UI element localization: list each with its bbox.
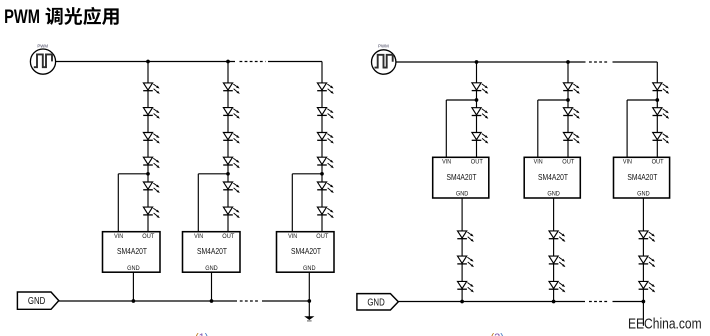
svg-text:SM4A20T: SM4A20T [538,173,568,182]
junction bus-col2 (right) [566,60,570,64]
svg-text:VIN: VIN [623,160,632,166]
svg-text:VIN: VIN [442,160,451,166]
LED D9 (left col2) [223,133,240,144]
wire GND pin col1 (left) [132,272,134,301]
wire PWM bus dashed (continuation) [240,61,266,63]
svg-text:GND: GND [127,266,140,272]
LED D8 (left col2) [223,108,240,119]
svg-text:PWM: PWM [37,43,48,49]
IC U5 SM4A20T [524,157,580,198]
IC U3 SM4A20T [277,232,335,273]
svg-text:GND: GND [637,192,650,198]
PWM source V2 [372,44,396,74]
junction gnd-col3 (left) [307,299,311,303]
wire ground bus left segment (right) [398,301,585,303]
wire ground stub (left) [308,301,310,317]
svg-text:SM4A20T: SM4A20T [291,247,321,256]
svg-text:SM4A20T: SM4A20T [627,173,657,182]
svg-text:PWM: PWM [4,7,40,28]
wire VIN tap vertical col3 (right) [626,100,628,157]
LED D23 (right col1 lower) [457,256,474,267]
svg-text:SM4A20T: SM4A20T [197,247,227,256]
svg-text:OUT: OUT [316,234,328,240]
svg-text:SM4A20T: SM4A20T [447,173,477,182]
wire ground stub down (right) [642,302,644,326]
wire ground bus right segment (right) [613,301,644,303]
junction bus-col1 (left) [146,60,150,64]
wire VIN tap horizontal col2 (left) [198,173,228,175]
svg-text:SM4A20T: SM4A20T [117,247,147,256]
junction tap col3 (left) [320,172,324,176]
LED D4 (left col1) [143,157,160,168]
svg-text:VIN: VIN [534,160,543,166]
svg-text:VIN: VIN [114,234,123,240]
wire lower LED string column 3 (right) [642,198,644,302]
LED D16 (left col3) [317,157,334,168]
IC U4 SM4A20T [433,157,489,198]
LED D15 (left col3) [317,133,334,144]
IC U2 SM4A20T [183,232,241,273]
LED D1 (left col1) [143,83,160,94]
LED D29 (right col2 lower) [549,256,566,267]
wire VIN tap horizontal col1 (right) [446,99,476,101]
GND tag left [17,292,58,309]
wire VIN tap horizontal col3 (right) [627,99,657,101]
junction tap col2 (left) [226,172,230,176]
wire LED string column 3 (left) [321,62,323,232]
svg-text:(2): (2) [491,332,504,336]
svg-text:OUT: OUT [222,234,234,240]
wire upper LED string column 1 (right) [476,62,478,157]
svg-text:OUT: OUT [652,160,664,166]
wire GND pin col2 (left) [211,272,213,301]
svg-text:OUT: OUT [142,234,154,240]
svg-text:GND: GND [303,266,316,272]
wire upper LED string column 2 (right) [567,62,569,157]
junction bus-col1 (right) [475,60,479,64]
junction tap col1 (left) [146,172,150,176]
LED D28 (right col2 lower) [549,231,566,242]
wire PWM bus dashed (right, continuation) [589,61,609,63]
ground symbol (left) [304,316,314,321]
svg-text:OUT: OUT [562,160,574,166]
svg-text:GND: GND [367,297,384,308]
GND tag right [357,294,398,310]
title: PWM dimming application [4,7,119,28]
wire VIN tap horizontal col3 (left) [292,173,322,175]
LED D3 (left col1) [143,133,160,144]
LED D20 (right col1 upper) [472,108,489,119]
LED D36 (right col3 lower) [639,281,656,292]
svg-text:GND: GND [205,266,218,272]
LED D12 (left col2) [223,207,240,218]
LED D11 (left col2) [223,182,240,193]
LED D35 (right col3 lower) [639,256,656,267]
junction gnd-col1 (right) [460,300,464,304]
junction gnd-col3 (right) [642,300,646,304]
wire lower LED string column 2 (right) [553,198,555,302]
LED D22 (right col1 lower) [457,231,474,242]
wire ground bus dashed (right, continuation) [589,301,609,303]
svg-text:GND: GND [28,296,45,307]
LED D6 (left col1) [143,207,160,218]
wire VIN tap vertical col2 (right) [537,100,539,157]
wire upper LED string column 3 (right) [656,62,658,157]
PWM source V1 [30,43,55,74]
svg-text:GND: GND [456,192,469,198]
junction tap col2 (right) [566,98,570,102]
LED D19 (right col1 upper) [472,83,489,94]
LED D30 (right col2 lower) [549,281,566,292]
wire PWM bus right segment (right) [613,61,658,63]
LED D7 (left col2) [223,83,240,94]
LED D25 (right col2 upper) [563,83,580,94]
wire ground bus dashed (continuation) [240,300,259,302]
LED D24 (right col1 lower) [457,281,474,292]
LED D21 (right col1 upper) [472,133,489,144]
LED D34 (right col3 lower) [639,231,656,242]
wire VIN tap horizontal col1 (left) [118,173,148,175]
LED D33 (right col3 upper) [653,133,670,144]
svg-text:PWM: PWM [378,44,389,50]
wire LED string column 2 (left) [227,62,229,232]
LED D2 (left col1) [143,108,160,119]
wire ground bus left segment [59,300,237,302]
wire lower LED string column 1 (right) [461,198,463,302]
svg-text:(1): (1) [195,332,208,336]
junction bus-col2 (left) [226,60,230,64]
wire GND pin col3 (left) [308,272,310,301]
LED D18 (left col3) [317,207,334,218]
LED D27 (right col2 upper) [563,133,580,144]
LED D10 (left col2) [223,157,240,168]
junction tap col1 (right) [475,98,479,102]
junction gnd-col2 (left) [210,299,214,303]
svg-text:OUT: OUT [471,160,483,166]
LED D32 (right col3 upper) [653,108,670,119]
wire ground bus right segment [262,300,309,302]
LED D13 (left col3) [317,83,334,94]
junction gnd-col2 (right) [552,300,556,304]
svg-text:VIN: VIN [288,234,297,240]
LED D14 (left col3) [317,108,334,119]
junction tap col3 (right) [655,98,659,102]
LED D26 (right col2 upper) [563,108,580,119]
LED D5 (left col1) [143,182,160,193]
wire PWM bus right segment [268,61,322,63]
wire VIN tap horizontal col2 (right) [538,99,568,101]
wire PWM bus left segment (right) [396,61,586,63]
wire VIN tap vertical col2 (left) [197,174,199,232]
LED D31 (right col3 upper) [653,83,670,94]
svg-text:EEChina.com: EEChina.com [628,317,702,333]
IC U6 SM4A20T [614,157,670,198]
wire LED string column 1 (left) [147,62,149,232]
svg-text:GND: GND [547,192,560,198]
wire PWM bus left segment [56,61,235,63]
IC U1 SM4A20T [103,232,161,273]
svg-text:VIN: VIN [194,234,203,240]
LED D17 (left col3) [317,182,334,193]
wire VIN tap vertical col3 (left) [291,174,293,232]
wire VIN tap vertical col1 (right) [445,100,447,157]
wire VIN tap vertical col1 (left) [117,174,119,232]
junction gnd-col1 (left) [132,299,136,303]
